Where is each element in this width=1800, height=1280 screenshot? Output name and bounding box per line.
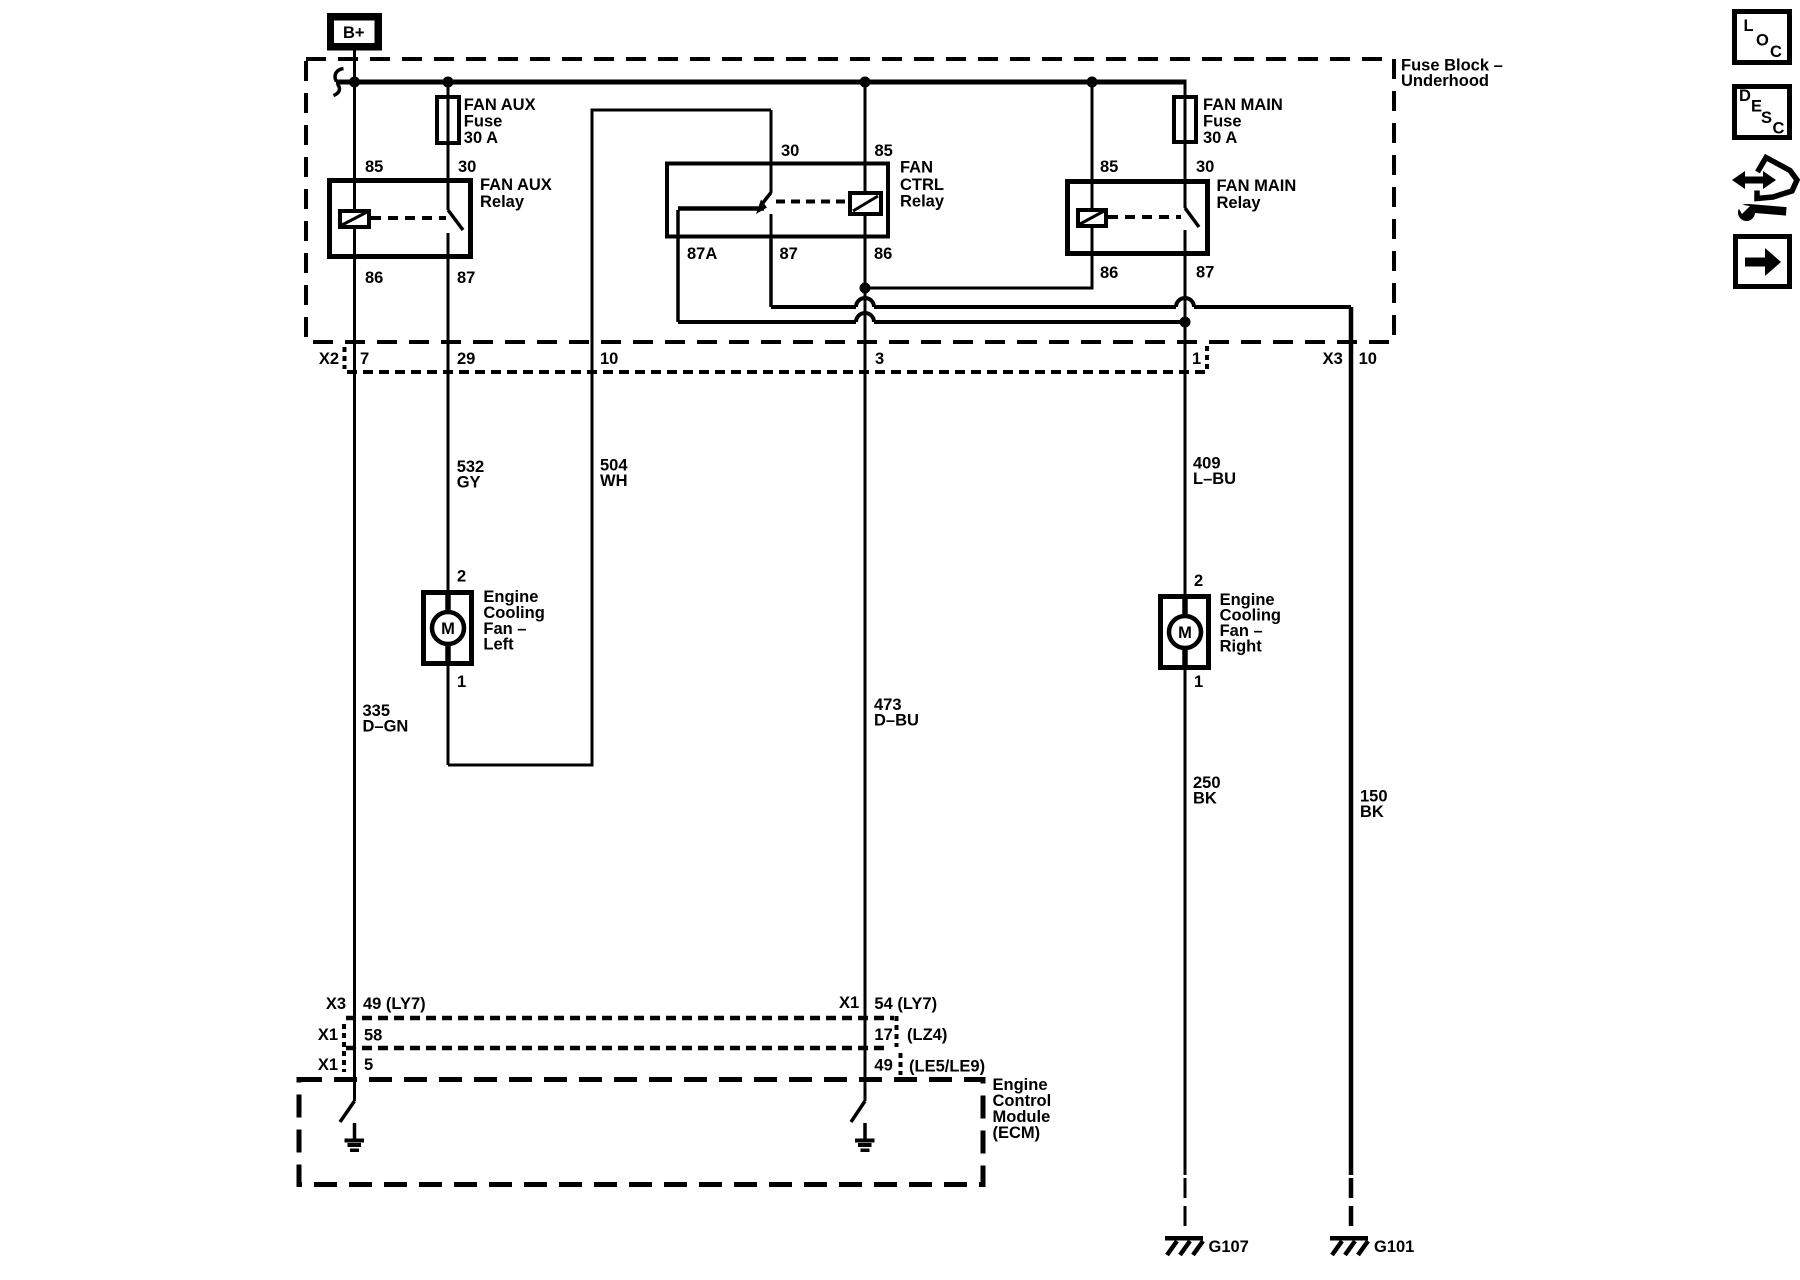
wire fuse/relay column x1185 — [1184, 82, 1187, 208]
svg-text:Relay: Relay — [480, 193, 525, 211]
svg-text:X3: X3 — [326, 995, 346, 1013]
svg-text:10: 10 — [1359, 350, 1377, 368]
svg-text:X1: X1 — [318, 1056, 338, 1074]
ECM connector row 2 dashed — [346, 1046, 890, 1051]
svg-text:5: 5 — [364, 1056, 373, 1074]
wire 335 D-GN vertical (bus to ECM) — [353, 82, 356, 1101]
svg-text:49: 49 — [874, 1057, 892, 1075]
relay FAN AUX coil — [340, 211, 369, 227]
svg-text:3: 3 — [875, 350, 884, 368]
relay FAN MAIN switch blade — [1185, 208, 1199, 227]
svg-text:87: 87 — [780, 245, 798, 263]
label Fuse Block - Underhood — [1401, 57, 1503, 91]
svg-text:Left: Left — [483, 636, 514, 654]
svg-text:49 (LY7): 49 (LY7) — [363, 995, 426, 1013]
relay FAN CTRL pin 87 stub — [770, 214, 773, 239]
svg-text:GY: GY — [457, 474, 481, 492]
svg-text:D–BU: D–BU — [874, 712, 919, 730]
fuse FAN MAIN — [1174, 97, 1196, 142]
svg-text:30 A: 30 A — [1203, 129, 1237, 147]
fuse FAN AUX — [437, 97, 459, 143]
bus continuation S-hook — [335, 69, 343, 82]
svg-text:D–GN: D–GN — [363, 718, 409, 736]
svg-text:58: 58 — [364, 1027, 382, 1045]
svg-text:87: 87 — [457, 269, 475, 287]
svg-text:1: 1 — [1192, 350, 1201, 368]
svg-text:WH: WH — [600, 472, 628, 490]
relay FAN MAIN coil — [1078, 210, 1106, 226]
label FAN MAIN Relay — [1217, 177, 1297, 212]
svg-text:D: D — [1739, 87, 1751, 105]
wire FAN MAIN 85 from bus — [1091, 82, 1094, 210]
svg-text:X1: X1 — [839, 994, 859, 1012]
svg-text:M: M — [441, 620, 455, 638]
ground G107 — [1165, 1236, 1203, 1255]
fuse block underhood dashed box — [306, 59, 1394, 342]
connector X2 separator — [343, 347, 347, 369]
junction node on bus at x865 — [860, 77, 871, 88]
ECM switch left — [340, 1101, 355, 1122]
main B+ bus wire — [336, 80, 1187, 85]
relay FAN CTRL switch blade with arrow — [756, 193, 771, 215]
svg-text:85: 85 — [1100, 158, 1118, 176]
svg-text:Relay: Relay — [1217, 194, 1262, 212]
wire 409 L-BU / 250 BK vertical — [1184, 256, 1187, 1175]
svg-text:Right: Right — [1220, 638, 1263, 656]
svg-text:30: 30 — [458, 158, 476, 176]
svg-text:Fuse: Fuse — [464, 113, 503, 131]
svg-text:M: M — [1178, 624, 1192, 642]
svg-text:10: 10 — [600, 350, 618, 368]
wire label 504 WH — [600, 457, 628, 491]
relay FAN MAIN link dashed — [1108, 215, 1181, 219]
wire FAN CTRL 87 to 150 BK (y307) — [771, 239, 1351, 307]
svg-text:1: 1 — [457, 673, 466, 691]
ECM ground left — [345, 1123, 365, 1152]
ECM dashed box — [299, 1080, 983, 1185]
svg-text:L: L — [1744, 17, 1754, 35]
junction node 86-86 — [860, 283, 871, 294]
svg-text:(LE5/LE9): (LE5/LE9) — [909, 1058, 985, 1076]
svg-text:2: 2 — [457, 568, 466, 586]
icon LOC box — [1735, 12, 1790, 63]
ECM connector right separator row3 — [899, 1053, 903, 1075]
icon arrow box — [1736, 237, 1790, 287]
wire 86 to 86 horizontal — [865, 256, 1092, 288]
relay FAN CTRL box — [667, 164, 888, 237]
relay FAN CTRL 87A contact bar — [678, 206, 764, 211]
svg-text:17: 17 — [874, 1026, 892, 1044]
wire 504 WH vertical and top run — [448, 110, 771, 765]
motor Engine Cooling Fan Left — [424, 590, 472, 666]
junction node on bus at x448 — [443, 77, 454, 88]
svg-text:Fuse: Fuse — [1203, 113, 1242, 131]
power symbol B+ — [327, 13, 382, 51]
svg-text:Relay: Relay — [900, 193, 945, 211]
relay FAN MAIN box — [1068, 182, 1208, 254]
icon compare exchange wrench — [1732, 158, 1797, 222]
svg-text:BK: BK — [1360, 803, 1384, 821]
svg-text:29: 29 — [457, 350, 475, 368]
label FAN CTRL Relay — [900, 159, 945, 211]
svg-text:30: 30 — [1196, 158, 1214, 176]
svg-text:30 A: 30 A — [464, 129, 498, 147]
svg-text:C: C — [1773, 120, 1785, 138]
svg-text:X2: X2 — [319, 350, 339, 368]
svg-text:S: S — [1761, 109, 1772, 127]
wire FAN MAIN 86 down — [1091, 226, 1094, 288]
connector pin 1 separator — [1205, 346, 1209, 372]
svg-text:30: 30 — [781, 142, 799, 160]
ECM connector row 1 dashed — [346, 1016, 894, 1021]
relay FAN CTRL coil — [850, 193, 881, 214]
label FAN AUX Fuse 30 A — [464, 96, 536, 147]
label FAN AUX Relay — [480, 176, 552, 211]
wire label 409 L-BU — [1193, 455, 1236, 489]
ECM switch right — [851, 1101, 865, 1122]
wire label 473 D-BU — [874, 696, 919, 730]
icon DESC box — [1735, 87, 1790, 138]
svg-text:CTRL: CTRL — [900, 176, 944, 194]
svg-text:X3: X3 — [1323, 350, 1343, 368]
svg-text:85: 85 — [365, 158, 383, 176]
svg-text:FAN MAIN: FAN MAIN — [1203, 96, 1283, 114]
wire label 150 BK — [1360, 788, 1388, 822]
svg-text:2: 2 — [1194, 572, 1203, 590]
svg-text:(LZ4): (LZ4) — [907, 1026, 947, 1044]
svg-text:87: 87 — [1196, 264, 1214, 282]
svg-text:7: 7 — [360, 350, 369, 368]
motor Engine Cooling Fan Right — [1161, 594, 1209, 670]
svg-text:86: 86 — [874, 245, 892, 263]
relay FAN AUX link dashed — [371, 216, 446, 220]
svg-text:C: C — [1770, 43, 1782, 61]
relay FAN CTRL link dashed — [776, 200, 850, 204]
wire 150 BK vertical — [1349, 307, 1354, 1175]
svg-text:1: 1 — [1194, 673, 1203, 691]
svg-text:85: 85 — [875, 142, 893, 160]
svg-text:G107: G107 — [1209, 1238, 1249, 1256]
svg-text:G101: G101 — [1374, 1238, 1414, 1256]
wire 150 BK dashed lead — [1349, 1178, 1354, 1233]
svg-text:54 (LY7): 54 (LY7) — [874, 995, 937, 1013]
svg-text:86: 86 — [1100, 264, 1118, 282]
label Engine Control Module (ECM) — [993, 1076, 1052, 1142]
label Engine Cooling Fan Right — [1220, 591, 1281, 656]
wire 87A to FAN MAIN 87 (y322) — [678, 210, 1191, 328]
svg-text:86: 86 — [365, 269, 383, 287]
svg-text:FAN AUX: FAN AUX — [480, 176, 552, 194]
svg-text:FAN AUX: FAN AUX — [464, 96, 536, 114]
wire B+ to bus — [353, 51, 356, 83]
relay FAN AUX pin 87 stub — [447, 233, 450, 259]
svg-text:FAN: FAN — [900, 159, 933, 177]
wire 532 GY vertical (relay 87 to left fan) — [447, 259, 450, 765]
wire 250 BK dashed lead — [1184, 1178, 1187, 1233]
svg-text:BK: BK — [1193, 790, 1217, 808]
connector X2 strip bottom dashed line — [347, 370, 1207, 374]
wire label 250 BK — [1193, 774, 1221, 808]
wire FAN CTRL 85 from bus — [864, 82, 867, 193]
wire label 335 D-GN — [363, 702, 409, 736]
svg-text:FAN MAIN: FAN MAIN — [1217, 177, 1297, 195]
svg-text:B+: B+ — [343, 24, 365, 42]
relay FAN MAIN pin 87 stub — [1184, 230, 1187, 256]
wire 473 D-BU vertical (coil 86 to ECM) — [864, 214, 867, 1101]
label FAN MAIN Fuse 30 A — [1203, 96, 1283, 147]
junction node on bus at x1092 — [1087, 77, 1098, 88]
svg-text:L–BU: L–BU — [1193, 470, 1236, 488]
svg-text:X1: X1 — [318, 1026, 338, 1044]
ECM connector right separator row2 — [895, 1016, 899, 1047]
wire label 532 GY — [457, 458, 485, 492]
relay FAN AUX box — [330, 181, 471, 257]
svg-text:(ECM): (ECM) — [993, 1124, 1041, 1142]
relay FAN CTRL pin 30 stub — [770, 110, 773, 193]
svg-text:87A: 87A — [687, 245, 717, 263]
ground G101 — [1330, 1236, 1368, 1255]
junction node on bus at x354 — [349, 77, 360, 88]
svg-text:Underhood: Underhood — [1401, 72, 1489, 90]
label Engine Cooling Fan Left — [483, 588, 544, 654]
relay FAN AUX switch blade — [448, 210, 463, 230]
ECM ground right — [855, 1123, 875, 1152]
wire fuse/relay column x448 — [447, 82, 450, 210]
ECM connector left separator — [342, 1024, 346, 1072]
svg-text:O: O — [1756, 32, 1769, 50]
